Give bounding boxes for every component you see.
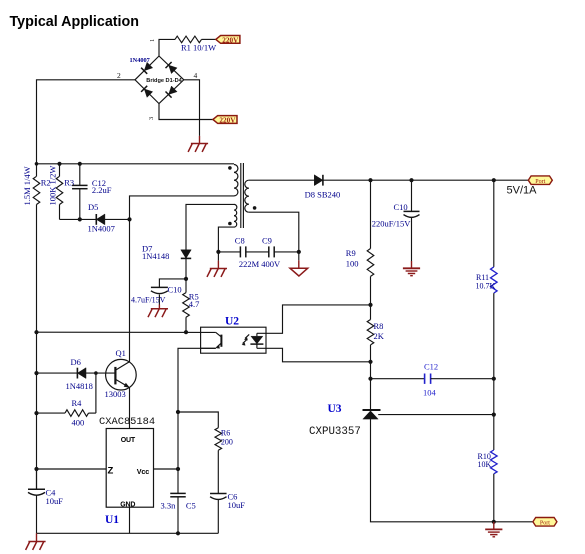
transformer core <box>241 163 244 228</box>
220V input flag top <box>216 36 240 45</box>
bridge diode upper-left (points to left corner) <box>141 62 153 74</box>
capacitor C10 4.7uF <box>151 287 168 293</box>
svg-text:U3: U3 <box>328 403 342 415</box>
node rail-primary junction dot <box>35 162 39 166</box>
svg-text:2: 2 <box>117 71 121 80</box>
svg-text:10uF: 10uF <box>228 500 246 510</box>
wire D6 line <box>37 372 78 374</box>
node C12b left dot <box>368 377 372 381</box>
node C12b right dot <box>492 377 496 381</box>
svg-text:R8: R8 <box>374 321 384 331</box>
svg-text:Bridge D1-D4: Bridge D1-D4 <box>146 78 182 84</box>
svg-text:222M: 222M <box>239 259 260 269</box>
svg-text:400V: 400V <box>261 259 281 269</box>
U1 designator <box>105 514 119 526</box>
wire C10a top <box>411 180 413 211</box>
D6 label <box>66 357 93 391</box>
svg-text:2K: 2K <box>374 331 385 341</box>
title <box>10 14 139 30</box>
wire C10b to ground <box>158 295 160 309</box>
transistor Q1 circle <box>106 359 137 390</box>
node C5 rail dot <box>176 531 180 535</box>
wire bridge top to R1 <box>159 39 175 56</box>
bridge diode lower-left (points to left corner) <box>141 86 153 98</box>
resistor R8 <box>367 320 374 345</box>
wire left rail R2 to bottom <box>36 205 38 490</box>
D5 label <box>88 202 115 234</box>
svg-text:220uF/15V: 220uF/15V <box>372 219 412 229</box>
resistor R10 (blue) <box>491 450 498 474</box>
svg-text:4: 4 <box>194 71 198 80</box>
node rail-opto dot <box>34 330 38 334</box>
Port output flag bottom <box>533 518 557 527</box>
wire U3 ref <box>378 414 494 416</box>
svg-text:Q1: Q1 <box>116 348 126 358</box>
Q1 labels <box>105 348 126 399</box>
U1 part number <box>99 416 155 428</box>
resistor R3 <box>56 176 63 204</box>
R9 label <box>346 248 359 268</box>
node Z rail dot <box>34 467 38 471</box>
svg-text:104: 104 <box>423 388 437 398</box>
U1 pin Z label <box>108 466 114 477</box>
C8 C9 labels <box>235 235 281 268</box>
wire C12 top stub <box>79 164 81 186</box>
svg-text:Vcc: Vcc <box>137 467 149 476</box>
wire R11 to R10 <box>493 293 495 450</box>
node C12 bottom dot <box>78 217 82 221</box>
wire R4 right <box>89 412 96 414</box>
node C9 right dot <box>297 250 301 254</box>
R2 value 1.5M 1/4W (rotated) <box>22 166 32 205</box>
wire aux bottom to C8 node <box>218 227 234 252</box>
svg-text:10K: 10K <box>478 460 492 469</box>
wire left rail to opto collector <box>37 331 216 333</box>
wire U3 anode to bottom rail <box>371 419 494 522</box>
resistor R2 <box>33 176 40 204</box>
bridge diode upper-right (points to top corner) <box>166 62 178 74</box>
bridge pin 3 number (rotated) <box>148 117 155 120</box>
wire C8-C9 segment <box>246 251 269 253</box>
svg-text:C10: C10 <box>394 202 408 212</box>
wire GND pin <box>129 507 131 533</box>
ground bottom-right <box>485 522 502 537</box>
node R4 rail dot <box>34 411 38 415</box>
resistor R6 <box>215 428 222 451</box>
U2 designator <box>225 316 239 328</box>
wire R1 to 220V flag <box>202 38 216 40</box>
primary polarity dot <box>228 166 232 170</box>
diode D8 (points right) <box>314 175 323 186</box>
wire C5 to rail <box>177 497 179 534</box>
wire C9 right segment <box>274 251 299 253</box>
svg-text:C12: C12 <box>424 362 438 372</box>
node R9 bottom dot <box>368 303 372 307</box>
node C12 top dot <box>78 162 82 166</box>
capacitor C12 (blue, 104) <box>425 374 431 384</box>
wire rail y163 to transformer primary <box>37 163 235 165</box>
svg-text:100K 1/2W: 100K 1/2W <box>48 166 58 206</box>
C12b label <box>423 362 438 398</box>
wire collector line <box>129 219 131 362</box>
svg-text:GND: GND <box>120 502 135 509</box>
wire D5 to primary-bottom node <box>105 218 130 220</box>
bridge pin 2 number <box>117 71 121 80</box>
wire C12 bottom stub <box>79 189 81 220</box>
R1 label <box>181 43 216 53</box>
svg-text:R6: R6 <box>221 429 230 438</box>
U1 box <box>106 429 153 508</box>
secondary polarity dot <box>253 206 257 210</box>
wire C6 to rail <box>217 500 219 534</box>
opto phototransistor <box>201 332 222 348</box>
resistor R5 <box>183 293 190 318</box>
transformer primary winding <box>234 165 238 196</box>
resistor R1 <box>175 36 202 43</box>
wire Vcc down to C5 <box>177 412 179 493</box>
220V input flag bottom <box>213 116 237 125</box>
svg-text:1N4818: 1N4818 <box>66 381 93 391</box>
R10 label <box>478 452 492 469</box>
svg-text:D6: D6 <box>71 357 81 367</box>
capacitor C9 <box>269 246 274 257</box>
wire rail to R9 <box>370 180 372 248</box>
bridge diode lower-right (points to bottom corner) <box>166 86 178 98</box>
svg-text:1N4007: 1N4007 <box>130 57 150 64</box>
C10b label <box>131 285 182 305</box>
wire R5 bottom <box>185 317 187 332</box>
C10a label <box>372 202 412 229</box>
svg-text:C8: C8 <box>235 235 245 245</box>
R4 label <box>72 398 85 428</box>
svg-text:220V: 220V <box>222 36 239 44</box>
svg-text:Port: Port <box>535 179 545 185</box>
resistor R3 wire top <box>59 164 61 177</box>
wire rail to C4 <box>36 469 38 489</box>
svg-text:3: 3 <box>148 117 155 120</box>
wire bridge pin4 down to ground <box>184 80 200 136</box>
capacitor C5 <box>170 493 186 496</box>
D7 label <box>142 243 169 261</box>
wire C12b left segment <box>371 378 425 380</box>
aux polarity dot <box>228 222 232 226</box>
svg-text:3.3n: 3.3n <box>161 501 177 511</box>
svg-text:1N4007: 1N4007 <box>88 224 115 234</box>
wire opto emitter out <box>178 348 216 412</box>
C5 label <box>161 501 196 511</box>
wire R3 bottom <box>59 205 61 220</box>
node R3 top dot <box>57 162 61 166</box>
ground bottom-left <box>26 533 46 550</box>
wire D6 to Q1 base <box>86 372 115 374</box>
wire R4 left <box>37 412 66 414</box>
U1 pin Vcc label <box>137 467 149 476</box>
wire Z pin <box>37 468 107 470</box>
node D6-R4 junction dot <box>94 371 98 375</box>
U3 part number <box>309 426 361 438</box>
svg-text:400: 400 <box>72 418 85 428</box>
wire R6 to C6 <box>217 450 219 493</box>
svg-text:OUT: OUT <box>121 437 136 444</box>
R3 value 100K 1/2W (rotated) <box>48 166 58 206</box>
svg-text:220V: 220V <box>219 117 236 125</box>
svg-text:R9: R9 <box>346 248 356 258</box>
ground under C8 node <box>207 252 227 277</box>
ground under C10b <box>148 309 168 317</box>
resistor R4 <box>65 410 89 417</box>
svg-text:5V/1A: 5V/1A <box>507 185 538 197</box>
ground at bridge output <box>188 136 208 152</box>
R5 label <box>189 292 200 309</box>
wire bottom rail <box>37 532 219 534</box>
node R9 top dot <box>368 178 372 182</box>
capacitor C8 <box>240 246 245 257</box>
wire 5V output rail <box>323 179 528 181</box>
R6 label <box>221 429 233 447</box>
node primary bottom junction dot <box>127 217 131 221</box>
diode D6 (points left) <box>77 368 86 379</box>
svg-text:1: 1 <box>149 39 156 42</box>
capacitor C4 <box>28 489 45 495</box>
C4 label <box>46 488 64 507</box>
D8 label <box>305 189 341 199</box>
svg-text:C9: C9 <box>262 235 272 245</box>
transformer auxiliary winding <box>234 204 237 227</box>
svg-text:Z: Z <box>108 466 114 477</box>
wire D6 R4 vertical <box>95 373 97 413</box>
svg-text:100: 100 <box>346 258 359 268</box>
C6 label <box>228 492 246 510</box>
wire opto anode feed <box>257 305 371 333</box>
bridge label <box>146 78 182 84</box>
diode D7 (points down) <box>181 250 191 259</box>
Q1 emitter diagonal <box>115 379 128 387</box>
wire rail to R11 <box>493 180 495 267</box>
bridge part number 1N4007 <box>130 57 150 64</box>
capacitor C12 snubber <box>72 185 88 188</box>
wire Vcc node to R6 <box>178 412 218 428</box>
wire C4 to bottom rail <box>36 495 38 533</box>
svg-text:C5: C5 <box>186 501 196 511</box>
wire R10 bottom <box>493 474 495 522</box>
R11 label <box>476 273 496 290</box>
triangle ground under C9 node <box>290 252 308 276</box>
svg-text:C10: C10 <box>168 285 182 295</box>
wire C10a to ground <box>411 218 413 269</box>
R2 label <box>41 178 51 188</box>
wire node up to primary bottom lead <box>130 196 235 220</box>
wire aux top to D7 <box>186 204 234 249</box>
resistor R9 <box>367 249 374 277</box>
wire C8 segment <box>218 251 240 253</box>
wire secondary bottom to C9 node <box>249 212 299 252</box>
bridge pin 4 number <box>194 71 198 80</box>
svg-text:10.7K: 10.7K <box>476 281 496 290</box>
transformer secondary winding <box>245 180 249 212</box>
ground under C10a <box>403 268 420 275</box>
Port output flag top <box>528 176 552 185</box>
wire D7 to R5 <box>185 258 187 292</box>
wire stub to C10b <box>159 279 186 288</box>
svg-text:2.2uF: 2.2uF <box>92 185 112 195</box>
wire to Port flag bottom <box>494 521 533 523</box>
svg-text:CXPU3357: CXPU3357 <box>309 426 361 438</box>
Q1 collector diagonal <box>115 362 129 371</box>
wire secondary top to D8 <box>249 179 314 181</box>
C12 label <box>92 178 112 195</box>
svg-text:200: 200 <box>221 438 233 447</box>
U3 designator <box>328 403 342 415</box>
U3 shunt regulator CXPU3357 <box>363 410 381 419</box>
capacitor C10 220uF <box>404 211 420 217</box>
R3 label <box>64 178 74 188</box>
wire to C12b node <box>370 362 372 379</box>
R8 label <box>374 321 385 341</box>
node C10b stub dot <box>184 277 188 281</box>
wire U3 cathode <box>370 379 372 410</box>
bridge pin 1 number (rotated) <box>149 39 156 42</box>
svg-text:13003: 13003 <box>105 389 126 399</box>
capacitor C6 <box>210 494 227 500</box>
opto LED <box>250 333 263 348</box>
wire R8 bottom <box>370 345 372 362</box>
wire bridge pin2 to left rail <box>37 80 136 177</box>
wire C12b right segment <box>431 378 494 380</box>
svg-text:R4: R4 <box>72 398 83 408</box>
svg-text:U2: U2 <box>225 316 239 328</box>
wire opto cathode out <box>257 348 371 362</box>
svg-text:D5: D5 <box>88 202 98 212</box>
node R11 top dot <box>492 178 496 182</box>
node R8 bottom dot <box>368 360 372 364</box>
Q1 base bar <box>114 367 116 385</box>
wire bridge bottom to 220V flag <box>159 104 213 120</box>
opto light arrows <box>242 334 249 345</box>
wire R8 top <box>370 305 372 320</box>
svg-text:4.7: 4.7 <box>189 299 200 309</box>
node R5 bottom dot <box>184 330 188 334</box>
wire emitter to U1 OUT <box>129 387 131 429</box>
U1 pin GND label <box>120 502 135 509</box>
node C8 left dot <box>216 250 220 254</box>
wire R9 bottom to node <box>370 276 372 305</box>
svg-text:Typical Application: Typical Application <box>10 14 139 30</box>
5V/1A output label <box>507 185 538 197</box>
diode D5 (points left) <box>96 214 105 225</box>
wire Vcc pin <box>154 468 179 470</box>
svg-text:U1: U1 <box>105 514 119 526</box>
svg-text:4.7uF/15V: 4.7uF/15V <box>131 296 166 305</box>
svg-text:1.5M 1/4W: 1.5M 1/4W <box>22 166 32 205</box>
svg-text:R1 10/1W: R1 10/1W <box>181 43 216 53</box>
svg-text:10uF: 10uF <box>46 496 64 506</box>
node Vcc dot <box>176 467 180 471</box>
svg-text:Port: Port <box>540 520 550 526</box>
svg-text:D8 SB240: D8 SB240 <box>305 189 341 199</box>
node C10a top dot <box>409 178 413 182</box>
node emitter-R6 dot <box>176 410 180 414</box>
node U3 ref dot <box>492 413 496 417</box>
bridge rectifier D1-D4 diamond outline <box>135 56 184 104</box>
svg-text:1N4148: 1N4148 <box>142 251 169 261</box>
wire snubber line to D5 <box>60 218 97 220</box>
optocoupler U2 box <box>201 327 266 353</box>
node bottom-right dot <box>492 520 496 524</box>
resistor R11 (blue) <box>491 267 498 293</box>
node D6 rail dot <box>34 371 38 375</box>
U1 pin OUT label <box>121 437 136 444</box>
svg-text:CXAC85184: CXAC85184 <box>99 416 155 428</box>
